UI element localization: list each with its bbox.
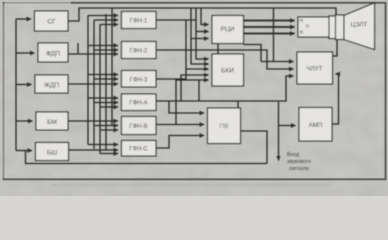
wire bus to BM input (16, 120, 33, 122)
wire branch GFN-2 to BKI input 2 (191, 50, 209, 64)
block SG (35, 11, 69, 31)
wire bus drop x191 (190, 8, 192, 39)
wire GFN-3 drop to bus (198, 80, 200, 101)
fade of frame top-left (scan fade) (5, 1, 71, 4)
svg-text:ЧЛУТ: ЧЛУТ (307, 66, 323, 73)
wire audio input to AMP (278, 102, 280, 158)
wire RCI bottom to ChLUT elbow (244, 45, 262, 62)
fade of frame left edge (2, 4, 5, 178)
CRT neck (298, 17, 330, 37)
block FDP (38, 43, 68, 62)
svg-text:B: B (300, 30, 303, 36)
wire GFN-3 output to BKI input 3 (156, 69, 209, 79)
ladder vertical V4 x106 (105, 14, 107, 151)
block BM (36, 112, 68, 130)
ladder vertical V2 x94 (93, 20, 95, 149)
boxes (35, 3, 375, 161)
svg-text:БКИ: БКИ (221, 68, 234, 75)
block GFN-2 (122, 42, 157, 59)
wire branch GFN-2 to RCI input 3 (191, 39, 209, 51)
wire GFN-1 output to BKI input 1 (156, 20, 209, 59)
svg-text:Вход: Вход (287, 152, 300, 158)
wire AMP output to ChLUT right (332, 74, 339, 124)
wire branch GFN-B to BKI input 5 (176, 80, 209, 125)
svg-text:ГФН-3: ГФН-3 (130, 78, 148, 84)
wire bus drop x196 (195, 8, 197, 20)
scan smudge below frame (50, 184, 330, 186)
wire SG output top bus to CRT yoke (68, 8, 336, 21)
svg-text:R: R (300, 18, 304, 24)
wire GFN-A output bus to ChLUT input 3 (156, 76, 294, 101)
audio input arrowhead (277, 156, 281, 162)
wire FDP stub (77, 43, 79, 54)
wire RCI to CRT R (244, 20, 295, 22)
wire A-bus branch to BKI input 4 (181, 75, 209, 101)
CRT yoke coil 1 (329, 16, 338, 39)
svg-text:ФДП: ФДП (46, 51, 60, 58)
svg-text:ГФН-В: ГФН-В (129, 124, 147, 130)
ladder vertical V3 x100 (99, 25, 101, 154)
wire ChLUT to CRT yoke bottom (333, 40, 338, 57)
wire top bus drop to ChLUT input 1 (273, 8, 275, 62)
svg-text:БШ: БШ (47, 150, 57, 157)
wire RCI to CRT B (244, 33, 295, 35)
block GFN-C (122, 141, 157, 157)
wire A-bus branch to PV top (237, 101, 239, 108)
wires ladder to GFN-2 inputs (88, 45, 118, 47)
CRT yoke coil 2 (336, 15, 345, 40)
svg-text:ГФН-А: ГФН-А (129, 101, 147, 107)
left feedback bus vertical (15, 19, 17, 151)
svg-text:РЦИ: РЦИ (220, 26, 234, 33)
wires ladder to GFN-B inputs (94, 125, 118, 127)
bottom feedback bus wire (26, 151, 268, 164)
block PV (208, 108, 241, 144)
svg-text:ПВ: ПВ (219, 123, 229, 130)
wire branch to RCI input 2 (196, 31, 209, 33)
svg-text:ЖДП: ЖДП (44, 82, 60, 89)
block ZhDP (35, 75, 68, 93)
wire BM output through ladder to GFN-B top input (68, 120, 118, 122)
CRT funnel (344, 3, 375, 50)
wire bus to ZhDP input (16, 84, 32, 86)
wire bus to FDP input (16, 52, 35, 54)
svg-text:звукового: звукового (287, 159, 311, 165)
svg-text:сигнала: сигнала (289, 166, 309, 172)
ladder vertical V5 x112 (111, 8, 113, 126)
wire GFN-2 output long bus to ChLUT (156, 50, 294, 69)
svg-text:СГ: СГ (47, 19, 56, 26)
wire top bus to RCI input 1 (201, 8, 209, 25)
wires ladder to GFN-C inputs (88, 144, 118, 146)
block RCI (212, 16, 244, 44)
wire FDP output through ladder to GFN-2 bottom input (68, 53, 118, 55)
wire RCI to BKI connector (217, 44, 219, 55)
wires ladder to GFN-3 inputs (88, 74, 118, 76)
wire channel vertical x186 (185, 20, 187, 69)
block GFN-B (122, 117, 157, 135)
block GFN-A (122, 94, 157, 111)
block ChLUT (297, 52, 333, 84)
block AMP (299, 108, 332, 142)
svg-text:АМП: АМП (309, 122, 323, 129)
wire PV output to bottom bus (241, 131, 268, 164)
annotation audio input text (287, 152, 311, 172)
wire bus to SG input (16, 18, 31, 20)
block BSh (36, 143, 69, 161)
wire GFN-B output to PV input 2 (156, 124, 204, 126)
wires ladder to GFN-1 inputs (88, 15, 118, 17)
wires ladder to GFN-A inputs (88, 97, 118, 99)
svg-text:ГФН-1: ГФН-1 (130, 19, 148, 25)
wire BSh output through ladder to GFN-C mid input (69, 149, 119, 151)
wire RCI to CRT G (244, 26, 295, 28)
wire GFN-C output to PV input 3 (156, 136, 204, 149)
block BKI (212, 54, 244, 86)
svg-text:ЦЭЛТ: ЦЭЛТ (351, 22, 368, 29)
svg-text:ГФН-2: ГФН-2 (130, 49, 148, 55)
block GFN-3 (122, 71, 157, 88)
wire bus to BSh input (16, 150, 32, 152)
outer border frame (4, 3, 386, 180)
ladder vertical V1 x88 (87, 16, 89, 145)
wire ZhDP output through ladder to GFN-3 bottom input (68, 83, 118, 85)
svg-text:ГФН-С: ГФН-С (129, 147, 148, 153)
svg-text:G: G (306, 24, 310, 30)
wire A-bus branch to PV input 1 (169, 101, 204, 113)
svg-text:БМ: БМ (47, 119, 57, 126)
block GFN-1 (122, 12, 157, 29)
